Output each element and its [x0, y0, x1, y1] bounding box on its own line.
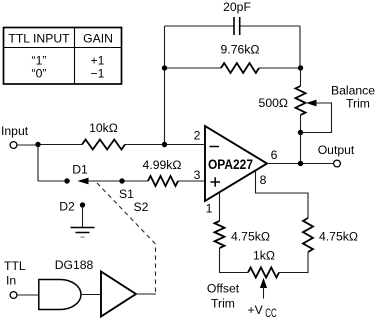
- svg-text:3: 3: [194, 168, 201, 182]
- wire: top feedback (right half, from 20pF): [240, 25, 300, 27]
- svg-text:DG188: DG188: [55, 258, 94, 272]
- wire: feedback right vertical (20pF to 9.76k node): [299, 26, 301, 68]
- wiper arrow of offset pot: [260, 278, 267, 288]
- resistor R5 4.75k (right): [303, 218, 313, 252]
- svg-text:6: 6: [271, 148, 278, 162]
- analog switch driver U2 DG188 gate body: [39, 280, 81, 310]
- node: output junction: [298, 161, 303, 166]
- node S1 switch contact: [119, 178, 124, 183]
- minus sign at inverting input: [210, 146, 220, 148]
- svg-text:+1: +1: [91, 54, 105, 68]
- wire: TTL in to gate: [17, 294, 39, 296]
- label Balance Trim: [331, 84, 375, 111]
- wire: balance node down to output row: [300, 133, 302, 164]
- node: feedback-right junction: [298, 65, 303, 70]
- svg-text:Trim: Trim: [211, 297, 235, 311]
- resistor R4 4.99k: [148, 176, 178, 186]
- label Offset Trim: [207, 282, 240, 311]
- wire: right 4.75k to bottom row: [279, 252, 308, 273]
- svg-text:10kΩ: 10kΩ: [89, 121, 118, 135]
- switch pole arrow S1: [78, 178, 89, 185]
- wire: gate to buffer: [81, 294, 101, 296]
- op-amp U1 OPA227 triangle: [205, 126, 267, 201]
- terminal: TTL In open circle: [10, 292, 17, 299]
- svg-text:Trim: Trim: [346, 97, 370, 111]
- svg-text:500Ω: 500Ω: [259, 96, 288, 110]
- wire: wiper stem from +Vcc: [263, 286, 265, 299]
- wire: feedback left vertical drop to inverting input: [164, 26, 166, 145]
- wire: buffer output to dashed control: [136, 293, 156, 295]
- dashed control line from DG188 to switch: [97, 183, 156, 295]
- label +Vcc: [248, 303, 277, 320]
- node: balance pot bottom junction: [298, 130, 303, 135]
- wire: switch pole to 4.99k: [88, 180, 149, 182]
- wiper arrow of balance pot: [306, 100, 317, 107]
- gain truth table: [4, 28, 122, 85]
- svg-text:8: 8: [260, 173, 267, 187]
- wire: balance pot bottom lead: [300, 115, 302, 133]
- svg-text:+V: +V: [248, 303, 264, 317]
- wire: input to 10k: [17, 144, 82, 147]
- svg-text:Offset: Offset: [207, 282, 240, 296]
- node D1 switch contact: [64, 178, 69, 183]
- wire: 9.76k row left lead: [165, 67, 222, 69]
- svg-text:4.75kΩ: 4.75kΩ: [319, 230, 358, 244]
- node: feedback junction at pin 2 wire: [162, 142, 167, 147]
- svg-text:“0”: “0”: [32, 67, 47, 81]
- capacitor C1 20pF: [234, 17, 240, 35]
- wire: top feedback (left half, to 20pF): [165, 25, 234, 27]
- svg-text:9.76kΩ: 9.76kΩ: [221, 43, 260, 57]
- resistor R6 4.75k (left): [215, 221, 225, 248]
- svg-text:1: 1: [206, 202, 213, 216]
- potentiometer R2 500 (balance trim): [296, 86, 306, 115]
- potentiometer R7 1k (offset trim): [248, 268, 279, 278]
- wire: pin 1 lead down: [219, 192, 221, 221]
- wire: balance pot top lead: [300, 68, 302, 86]
- svg-text:Input: Input: [1, 124, 29, 138]
- svg-text:2: 2: [194, 129, 201, 143]
- wire: switch row to contact D1: [38, 180, 70, 182]
- svg-text:Balance: Balance: [331, 84, 375, 98]
- wire: 9.76k row right lead: [259, 67, 300, 69]
- plus sign at non-inverting input: [211, 177, 221, 187]
- svg-text:4.99kΩ: 4.99kΩ: [143, 158, 182, 172]
- resistor R3 10k: [82, 140, 125, 150]
- svg-text:S1: S1: [119, 187, 134, 201]
- svg-text:TTL INPUT: TTL INPUT: [8, 32, 70, 46]
- svg-text:OPA227: OPA227: [208, 157, 253, 172]
- svg-text:20pF: 20pF: [223, 0, 251, 14]
- svg-text:CC: CC: [265, 306, 277, 318]
- svg-text:S2: S2: [134, 200, 149, 214]
- svg-text:“1”: “1”: [32, 54, 47, 68]
- buffer driver triangle: [101, 272, 136, 317]
- svg-text:In: In: [6, 274, 16, 288]
- svg-text:Output: Output: [318, 143, 355, 157]
- terminal: Output open circle: [334, 160, 341, 167]
- wire: left 4.75k to bottom row: [220, 248, 249, 273]
- svg-text:1kΩ: 1kΩ: [253, 249, 275, 263]
- wire: branch down to switch row: [37, 145, 39, 182]
- svg-text:GAIN: GAIN: [83, 32, 113, 46]
- wire: output from pin 6: [267, 163, 334, 165]
- svg-text:4.75kΩ: 4.75kΩ: [231, 230, 270, 244]
- node: feedback-left junction: [162, 65, 167, 70]
- node: input branch junction: [35, 142, 40, 147]
- terminal: Input open circle: [10, 142, 17, 149]
- ground: [71, 228, 95, 238]
- wire: D2 to ground: [82, 207, 84, 227]
- wire: pin 8 lead down and over: [256, 171, 309, 219]
- label TTL In: [4, 259, 26, 288]
- node D2 switch contact: [80, 202, 85, 207]
- wire: 10k to inverting input (pin 2): [125, 144, 205, 146]
- svg-text:TTL: TTL: [4, 259, 26, 273]
- wire: wiper return loop: [303, 103, 332, 133]
- svg-text:D2: D2: [59, 200, 75, 214]
- resistor R1 9.76k: [221, 63, 259, 73]
- svg-text:D1: D1: [72, 163, 88, 177]
- svg-text:−1: −1: [91, 67, 105, 81]
- wire: 4.99k to non-inverting input (pin 3): [178, 180, 205, 182]
